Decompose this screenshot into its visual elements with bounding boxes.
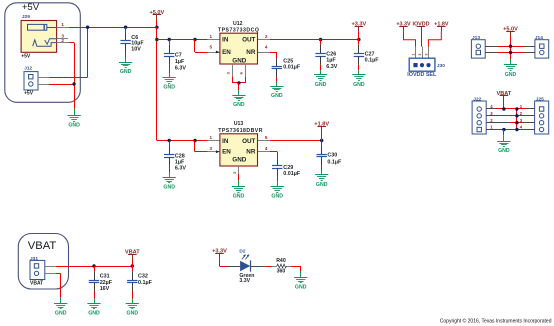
svg-text:0.1µF: 0.1µF [365, 58, 380, 64]
svg-text:GND: GND [127, 310, 139, 316]
svg-text:6.3V: 6.3V [326, 64, 337, 70]
svg-text:OUT: OUT [242, 138, 255, 145]
svg-text:GND: GND [120, 69, 132, 75]
svg-text:J31: J31 [30, 256, 38, 262]
svg-text:5: 5 [210, 45, 213, 50]
svg-text:3: 3 [424, 53, 428, 55]
svg-text:3.3V: 3.3V [239, 278, 250, 284]
svg-text:1: 1 [210, 34, 213, 39]
svg-text:D2: D2 [239, 249, 245, 255]
svg-text:GND: GND [163, 184, 175, 190]
svg-text:IN: IN [222, 37, 229, 44]
svg-text:GND: GND [295, 284, 307, 290]
svg-text:EN: EN [222, 49, 231, 56]
svg-text:2: 2 [61, 38, 64, 43]
svg-text:VBAT: VBAT [28, 240, 57, 252]
svg-text:VBAT: VBAT [30, 281, 43, 287]
svg-text:U12: U12 [233, 21, 243, 27]
svg-text:NR: NR [246, 149, 256, 156]
svg-text:OUT: OUT [242, 37, 255, 44]
svg-text:+5.0V: +5.0V [150, 10, 165, 16]
svg-text:6.3V: 6.3V [175, 66, 186, 72]
svg-text:Copyright © 2016, Texas Instru: Copyright © 2016, Texas Instruments Inco… [440, 317, 552, 324]
svg-text:GND: GND [353, 82, 365, 88]
svg-text:C7: C7 [175, 53, 182, 59]
svg-text:C31: C31 [100, 274, 110, 280]
svg-text:IOVDD SEL: IOVDD SEL [407, 72, 437, 78]
svg-text:GND: GND [316, 182, 328, 188]
svg-text:J12: J12 [24, 66, 32, 72]
svg-text:TPS73618DBVR: TPS73618DBVR [218, 128, 263, 134]
svg-text:4: 4 [265, 45, 268, 50]
svg-text:1: 1 [61, 22, 64, 27]
svg-text:GND: GND [271, 93, 283, 99]
svg-text:16V: 16V [100, 286, 110, 292]
svg-text:GND: GND [233, 193, 245, 199]
svg-text:J29: J29 [22, 14, 30, 20]
svg-text:0.1µF: 0.1µF [138, 280, 153, 286]
svg-text:6.3V: 6.3V [175, 166, 186, 172]
svg-text:+5V: +5V [21, 53, 31, 59]
svg-text:360: 360 [277, 268, 286, 274]
svg-text:1: 1 [411, 53, 415, 55]
svg-text:GND: GND [315, 82, 327, 88]
svg-text:+5V: +5V [24, 90, 34, 96]
svg-text:C32: C32 [138, 274, 148, 280]
svg-text:2: 2 [418, 53, 422, 55]
svg-text:1µF: 1µF [175, 59, 185, 65]
svg-text:10V: 10V [131, 46, 141, 52]
svg-text:22µF: 22µF [100, 280, 113, 286]
svg-text:GND: GND [55, 310, 67, 316]
svg-text:+5V: +5V [22, 2, 40, 13]
svg-text:GND: GND [271, 194, 283, 200]
svg-text:1: 1 [210, 135, 213, 140]
svg-text:GND: GND [232, 156, 246, 163]
svg-text:R40: R40 [276, 258, 286, 264]
svg-text:IN: IN [222, 138, 229, 145]
svg-text:0.01µF: 0.01µF [283, 171, 301, 177]
svg-text:GND: GND [68, 123, 80, 129]
svg-text:U13: U13 [234, 121, 244, 127]
svg-text:GND: GND [232, 57, 246, 64]
svg-text:C30: C30 [327, 153, 337, 159]
svg-text:4: 4 [265, 146, 268, 151]
svg-text:TPS73733DCQ: TPS73733DCQ [218, 28, 260, 34]
svg-text:GND: GND [498, 148, 510, 154]
svg-text:3: 3 [210, 146, 213, 151]
svg-text:GND: GND [163, 85, 175, 91]
svg-text:0.1µF: 0.1µF [327, 159, 342, 165]
svg-text:GND: GND [88, 310, 100, 316]
svg-text:J30: J30 [437, 63, 445, 69]
svg-text:GND: GND [505, 72, 517, 78]
svg-text:1µF: 1µF [326, 58, 336, 64]
svg-text:5: 5 [265, 135, 268, 140]
svg-text:2: 2 [265, 34, 268, 39]
svg-text:0.01µF: 0.01µF [283, 64, 301, 70]
svg-text:GND: GND [233, 102, 245, 108]
svg-text:NR: NR [246, 49, 256, 56]
svg-text:EN: EN [222, 149, 231, 156]
